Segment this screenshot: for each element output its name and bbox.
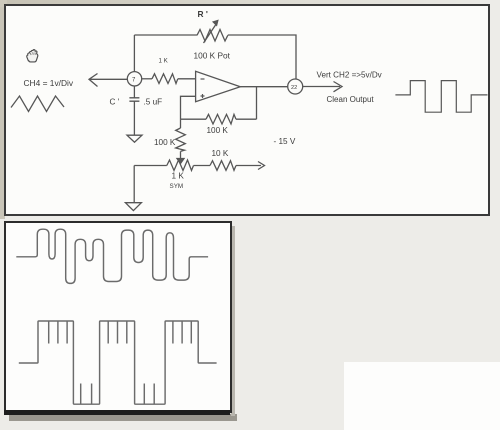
hand cursor — [27, 50, 38, 62]
svg-text:CH4 = 1v/Div: CH4 = 1v/Div — [24, 78, 74, 88]
svg-text:- 15 V: - 15 V — [274, 137, 296, 146]
svg-text:22: 22 — [291, 85, 297, 91]
triangle wave symbol CH4 — [11, 96, 64, 112]
svg-text:1 K: 1 K — [159, 58, 169, 65]
arrow to -15V supply — [257, 162, 265, 170]
scope trace: square wave with ticks (bottom) — [19, 321, 217, 404]
retrace ticks bottom runs — [81, 384, 155, 405]
wire op-amp + input — [181, 96, 196, 119]
wire to bottom ground — [133, 166, 135, 203]
potentiometer 1K SYM — [167, 159, 194, 171]
op-amp U1 — [196, 71, 241, 101]
wire bottom rail left — [134, 165, 167, 167]
wire capacitor to ground — [133, 102, 135, 136]
ground (bottom) — [125, 203, 141, 211]
svg-text:Vert CH2 =>5v/Dv: Vert CH2 =>5v/Dv — [317, 71, 383, 80]
square wave symbol clean output — [395, 81, 487, 113]
wire op-amp output — [240, 86, 287, 88]
node: input summing junction — [127, 72, 141, 86]
svg-text:Clean Output: Clean Output — [327, 95, 375, 104]
wire top rail right — [228, 35, 296, 79]
svg-text:1 K: 1 K — [172, 171, 185, 180]
wire feedback up to output — [256, 87, 258, 120]
svg-text:R ': R ' — [198, 9, 208, 19]
ground — [127, 135, 142, 142]
capacitor C' — [129, 98, 139, 101]
resistor 1K input — [142, 74, 196, 84]
svg-text:SYM: SYM — [170, 183, 184, 190]
scope trace: shaped wave (top) — [16, 229, 208, 283]
svg-text:10 K: 10 K — [212, 149, 229, 158]
potentiometer R' — [197, 21, 228, 44]
arrow to CH4 probe — [89, 74, 127, 87]
resistor 100K to wiper — [176, 119, 186, 158]
retrace ticks top runs — [49, 322, 192, 344]
wire top rail left — [134, 34, 197, 36]
arrow clean output — [303, 82, 342, 92]
svg-text:100 K: 100 K — [154, 138, 176, 147]
resistor 10K — [194, 161, 258, 171]
wire node to capacitor — [133, 86, 135, 98]
svg-text:.5 uF: .5 uF — [144, 97, 163, 106]
svg-text:100 K Pot: 100 K Pot — [194, 50, 231, 60]
resistor 100K feedback — [181, 114, 257, 124]
wire node to top rail — [133, 35, 135, 72]
svg-text:100 K: 100 K — [207, 126, 229, 135]
node: output junction 22 — [288, 79, 303, 94]
svg-text:C ': C ' — [110, 97, 120, 106]
